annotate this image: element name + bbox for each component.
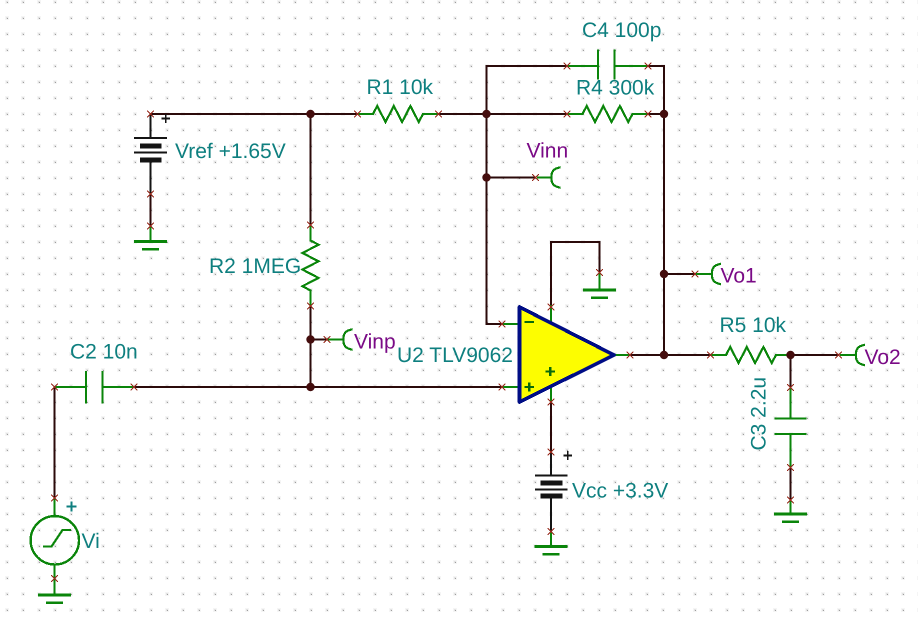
node label Vinp [324, 329, 396, 353]
svg-text:Vcc +3.3V: Vcc +3.3V [572, 480, 668, 503]
junction node Vinn tap [482, 173, 490, 181]
junction node output row [660, 351, 668, 359]
battery Vref [134, 114, 170, 194]
junction node feedback left at top row [482, 110, 490, 118]
svg-text:C4 100p: C4 100p [582, 19, 661, 42]
resistor R4 [567, 106, 648, 122]
wire R5 node down to C3 top pin [790, 355, 792, 388]
wire C4 branch left: up from feedback node and right to C4 left pin [487, 66, 568, 114]
wire R2 bottom pin down through Vinp node to C2 row [310, 306, 312, 387]
capacitor C3 [775, 388, 807, 468]
capacitor C2 [55, 371, 135, 404]
wire C2 left pin down to Vi source top [54, 387, 56, 498]
ground below Vref [134, 226, 167, 249]
junction node C2 row at R2 column [306, 383, 314, 391]
junction node at R2 top / Vref row [306, 110, 314, 118]
wire op-amp bottom pin to Vcc battery [550, 402, 552, 452]
node label Vinn [527, 140, 569, 188]
wire C3 bottom pin to ground [790, 468, 792, 501]
svg-text:Vref +1.65V: Vref +1.65V [175, 140, 286, 163]
wire Vinp tap [311, 339, 328, 341]
wire left feedback column down to op-amp inverting input [487, 114, 503, 324]
wire Vo1 tap [664, 273, 695, 275]
wire Vref- to ground [150, 194, 152, 226]
resistor R1 [358, 106, 439, 122]
junction node Vo1 tap [660, 270, 668, 278]
svg-text:C2 10n: C2 10n [70, 341, 138, 364]
ground below C3 [774, 500, 807, 522]
wire Vinn tap [487, 177, 536, 179]
wire Vref+ to node at top row [151, 113, 311, 115]
resistor R5 [711, 347, 791, 363]
junction node Vinp tap [306, 335, 314, 343]
battery Vcc [535, 451, 572, 531]
junction node right column at top row [660, 110, 668, 118]
wire feedback node to R4 left pin [487, 113, 568, 115]
svg-text:Vo1: Vo1 [721, 265, 757, 288]
svg-text:C3 2.2u: C3 2.2u [748, 377, 771, 451]
svg-text:Vinp: Vinp [354, 331, 396, 354]
capacitor C4 [567, 50, 648, 80]
node label Vo2 [835, 345, 901, 369]
wire node to R2 top pin [310, 114, 312, 225]
node label Vo1 [692, 264, 757, 288]
resistor R2 [303, 225, 319, 306]
wire op-amp top pin to reference ground [551, 242, 600, 307]
wire R1 right pin to feedback node [439, 113, 487, 115]
wire R4 right pin to right node [648, 113, 664, 115]
svg-text:R1 10k: R1 10k [367, 76, 434, 99]
svg-text:R5 10k: R5 10k [720, 314, 787, 337]
pin markers [51, 63, 794, 582]
wire right column from C4 node down to output node [663, 114, 665, 355]
wire C4 right pin to right column [648, 66, 664, 114]
svg-text:U2 TLV9062: U2 TLV9062 [397, 344, 513, 367]
svg-text:R4 300k: R4 300k [576, 77, 655, 100]
svg-text:Vinn: Vinn [527, 140, 569, 163]
op-amp U2 [502, 305, 630, 403]
wire op-amp output to node [630, 354, 664, 356]
voltage source Vi [31, 498, 79, 579]
ground reference above op-amp [583, 273, 616, 298]
junction node R5 right / C3 top [786, 351, 794, 359]
wire output node to R5 left pin [664, 354, 711, 356]
svg-text:Vo2: Vo2 [865, 346, 901, 369]
ground below Vcc [535, 532, 568, 555]
wire node to R1 left pin [311, 113, 358, 115]
svg-text:Vi: Vi [82, 530, 100, 553]
wire C2 right pin to op-amp non-inverting input [134, 386, 502, 388]
svg-text:R2 1MEG: R2 1MEG [209, 255, 301, 278]
wire R5 right pin node to Vo2 tap [791, 354, 839, 356]
plus mark of Vi [67, 502, 77, 512]
ground below Vi [38, 579, 71, 603]
